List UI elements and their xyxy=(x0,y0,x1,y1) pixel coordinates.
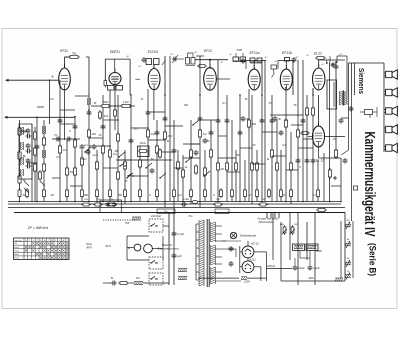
label Tonw xyxy=(85,242,92,250)
resistor Rbus4 xyxy=(213,199,223,206)
svg-text:1M: 1M xyxy=(114,150,117,153)
svg-text:25k: 25k xyxy=(167,134,173,138)
value label t6 xyxy=(245,98,248,101)
labels pots xyxy=(346,220,351,273)
value label t3 xyxy=(140,98,144,101)
svg-text:Kurz2: Kurz2 xyxy=(15,247,20,249)
wire link L2 xyxy=(60,123,75,125)
wire 169 down xyxy=(168,213,170,286)
resistor R62 xyxy=(290,225,295,235)
wire vertical V31 xyxy=(210,120,212,202)
wire link L11 xyxy=(131,175,148,177)
value label top t11 xyxy=(322,63,326,66)
svg-text:+8µF: +8µF xyxy=(313,266,320,270)
capacitor C2 at V5 xyxy=(241,58,246,64)
wire EL12s join xyxy=(308,89,345,159)
svg-text:45Ω: 45Ω xyxy=(280,223,284,226)
wire vertical V16 xyxy=(117,95,119,202)
wire link L20 xyxy=(240,147,252,149)
switch S11 xyxy=(159,173,166,179)
IF transformer T2 xyxy=(142,57,166,65)
wire tube V1 anode loop xyxy=(65,57,90,95)
capacitor C21 xyxy=(225,118,230,124)
tube V1 EF11 xyxy=(59,49,71,90)
value label t26 xyxy=(50,194,53,197)
wire vertical V37 xyxy=(244,160,246,202)
chassis bus wire 2 xyxy=(8,203,341,205)
wire link L23 xyxy=(272,155,286,157)
wire vertical V26 xyxy=(177,150,179,202)
value label t10 xyxy=(69,130,71,133)
resistor R81 xyxy=(120,104,132,107)
capacitor C33 xyxy=(172,253,183,259)
wire vertical V14 xyxy=(109,90,111,202)
svg-text:Motor für: Motor für xyxy=(162,243,173,247)
resistor R34 xyxy=(216,161,219,172)
svg-text:100n: 100n xyxy=(308,277,314,280)
svg-text:EF12a: EF12a xyxy=(250,51,260,55)
svg-text:240mA: 240mA xyxy=(266,265,275,268)
resistor R36 xyxy=(234,161,237,172)
label socket xyxy=(257,218,279,224)
wire link L35 xyxy=(341,117,349,119)
wire vertical V36 xyxy=(239,95,241,202)
resistor Rb16 xyxy=(244,188,247,199)
bottom left capacitor C34 xyxy=(111,277,117,285)
resistor R11 xyxy=(42,162,45,173)
junction D19 xyxy=(164,94,166,96)
resistor Rb19 xyxy=(280,188,283,199)
capacitor C9 xyxy=(58,118,63,124)
value label t30 xyxy=(178,194,182,197)
svg-text:7kΩ: 7kΩ xyxy=(188,215,192,218)
resistor R47 xyxy=(328,168,331,179)
wire vertical V41 xyxy=(261,95,263,202)
subtitle (Serie B) (vertical) xyxy=(368,243,378,276)
resistor R80 xyxy=(100,105,111,108)
resistor under bus right xyxy=(316,209,327,212)
capacitor C53 xyxy=(349,106,354,112)
junction D14 xyxy=(285,119,287,121)
resistor Rb4 xyxy=(66,188,69,199)
bottom left coil L11 xyxy=(134,277,143,285)
choke on anode feed xyxy=(88,98,91,105)
wire link L27 xyxy=(70,185,82,187)
resistor R1 anode V1 xyxy=(65,52,81,59)
resistor Rb8 xyxy=(124,188,127,199)
wire vertical V40 xyxy=(256,150,258,202)
svg-text:EF12: EF12 xyxy=(204,49,212,53)
svg-text:1,2kΩ: 1,2kΩ xyxy=(123,101,129,104)
tube V2 EBF11 xyxy=(109,50,121,85)
svg-text:300: 300 xyxy=(84,194,89,197)
junction J6 xyxy=(102,201,104,203)
junction J17 xyxy=(302,201,304,203)
junction D10 xyxy=(199,117,201,119)
svg-text:EF11: EF11 xyxy=(60,49,68,53)
resistor R2 at V7 top xyxy=(300,56,330,134)
title Kammermusikgerät IV (vertical) xyxy=(361,132,378,237)
resistor Rb9 xyxy=(139,188,142,199)
capacitor C13 xyxy=(129,138,134,144)
mains transformer secondary winding a xyxy=(211,222,216,242)
value label t14 xyxy=(134,128,138,131)
wire AZ12 anodes xyxy=(240,246,267,281)
svg-text:30k: 30k xyxy=(252,122,257,126)
junction J7 xyxy=(117,201,119,203)
junction D11 xyxy=(217,119,219,121)
svg-text:(Motorantrieb): (Motorantrieb) xyxy=(258,221,273,224)
resistor R8 xyxy=(33,162,36,173)
wire top long 1 xyxy=(0,0,1,1)
resistor R20 0,3 xyxy=(108,148,117,159)
socket pins xyxy=(267,213,279,218)
resistor Rb7 xyxy=(109,188,112,199)
switch S2 xyxy=(127,173,135,176)
resistor R43 xyxy=(289,161,292,172)
svg-text:7N5: 7N5 xyxy=(125,222,130,225)
capacitor C31 with label xyxy=(273,116,282,122)
junction D8 xyxy=(164,117,166,119)
wire pot column xyxy=(341,221,353,278)
wire link L21 xyxy=(252,163,265,165)
wire vertical V6 xyxy=(59,80,61,202)
svg-text:ZF = 468 kHz: ZF = 468 kHz xyxy=(27,226,49,230)
svg-text:EBF11: EBF11 xyxy=(110,50,120,54)
resistor Rb17 xyxy=(256,188,259,199)
capacitor C12 xyxy=(101,124,106,130)
junction J4 xyxy=(74,201,76,203)
value label t13 xyxy=(114,150,117,153)
resistor R14 xyxy=(73,138,76,149)
wire vertical V9 xyxy=(74,117,76,201)
resistor R46 xyxy=(311,106,314,117)
svg-text:5000: 5000 xyxy=(82,159,88,161)
wire vertical V42 xyxy=(264,60,266,202)
wire link L26 xyxy=(52,177,60,179)
wire link L7 xyxy=(148,139,165,141)
wire vertical V59 xyxy=(351,63,353,95)
resistor R32 xyxy=(203,166,206,177)
trimmer C1 xyxy=(172,55,184,63)
potentiometer P4 xyxy=(345,273,351,280)
junction D9 xyxy=(173,151,175,153)
capacitor C28 xyxy=(305,158,310,164)
capacitor C25 xyxy=(279,130,284,136)
svg-text:STÄB: STÄB xyxy=(183,198,189,201)
resistor R21 xyxy=(116,132,119,143)
switch S12 xyxy=(185,157,192,163)
mains transformer secondary winding c xyxy=(211,267,216,284)
potentiometer P2 xyxy=(345,241,351,248)
label 7N5 xyxy=(125,222,130,225)
capacitor C23 xyxy=(260,118,265,124)
value label top t2 xyxy=(139,65,143,68)
resistor Rb6 xyxy=(96,188,99,199)
wire oscillator section xyxy=(188,53,205,56)
component at 335,178 xyxy=(333,176,337,180)
resistor R37 30k xyxy=(247,118,256,129)
svg-text:AZ12: AZ12 xyxy=(248,258,256,262)
wire link L5 xyxy=(89,145,110,147)
value label top t9 xyxy=(296,56,300,59)
capacitor C3 at V6 xyxy=(292,57,297,63)
label S3 xyxy=(150,215,162,218)
svg-text:ÄFN: ÄFN xyxy=(85,246,91,250)
capacitor C31 xyxy=(343,158,348,164)
resistor Rb18 xyxy=(268,188,271,199)
junction D24 xyxy=(312,94,314,96)
junction D2 xyxy=(88,109,90,111)
coil L6 xyxy=(43,126,46,134)
label ZF frequency xyxy=(27,226,49,230)
trimmer arrows xyxy=(24,181,45,193)
wire vertical V46 xyxy=(285,88,287,202)
wire link L13 xyxy=(165,125,183,127)
wire vertical V21 xyxy=(153,89,155,120)
small box right edge xyxy=(354,186,358,190)
wire vertical V10 xyxy=(81,150,83,202)
switch S8 xyxy=(126,173,133,179)
junction D20 xyxy=(199,94,201,96)
svg-text:AZ 12: AZ 12 xyxy=(250,242,259,246)
wire link L33 xyxy=(303,138,313,140)
junction D5 xyxy=(117,119,119,121)
small box under bus 2 xyxy=(215,209,229,214)
choke L14 xyxy=(335,278,343,281)
svg-text:ECH11: ECH11 xyxy=(148,50,159,54)
value label top t8 xyxy=(275,60,279,63)
wire V6 anode loop xyxy=(278,61,295,96)
wire vertical V27 xyxy=(182,155,184,202)
junction D16 xyxy=(36,145,38,147)
value label t19 xyxy=(220,168,223,171)
wire link L10 xyxy=(103,167,118,169)
svg-text:2x0,01µF: 2x0,01µF xyxy=(150,215,162,218)
capacitor C4 V7 xyxy=(334,64,339,70)
node antenna xyxy=(49,79,51,124)
resistor R19 xyxy=(101,144,104,155)
svg-text:0,1µF: 0,1µF xyxy=(177,232,184,236)
mains transformer primary winding xyxy=(199,220,204,286)
value label t29 xyxy=(149,194,151,197)
rectifier tube V10 AZ12 lower xyxy=(242,258,254,272)
resistor Rb21 xyxy=(317,188,320,199)
svg-text:1M: 1M xyxy=(50,194,53,197)
wire vertical V24 xyxy=(169,56,171,202)
resistor R41 xyxy=(275,161,278,172)
capacitor C10 xyxy=(73,124,78,130)
resistor R27 25k xyxy=(163,130,172,141)
resistor R40 xyxy=(270,148,273,159)
wire link extra1 xyxy=(140,159,148,161)
coupling network V6 xyxy=(271,58,290,78)
wire speaker bus xyxy=(383,63,385,152)
wire link L24 xyxy=(286,169,298,171)
mains transformer core xyxy=(207,219,209,287)
wire link L28 xyxy=(75,95,89,97)
junction J16 xyxy=(285,201,287,203)
wire vertical V11 xyxy=(88,95,90,202)
resistor R44 xyxy=(296,128,299,139)
wire vertical V57 xyxy=(346,63,348,91)
wire V4 anode loop xyxy=(195,59,230,95)
value label t9 xyxy=(56,156,60,159)
wire vertical V30 xyxy=(204,150,206,202)
wire V3 anode area xyxy=(154,56,165,95)
resistor R4 5k xyxy=(18,150,26,161)
resistor R38 xyxy=(250,161,253,172)
label cluster xyxy=(82,155,99,161)
capacitor C19 xyxy=(209,130,214,136)
value label t5 xyxy=(222,102,226,105)
junction D1 xyxy=(74,116,76,118)
transformer right taps xyxy=(215,226,241,281)
resistor R26 xyxy=(155,144,158,155)
wire vertical V54 xyxy=(328,62,330,202)
value label t20 xyxy=(237,154,240,157)
resistor R23 xyxy=(123,160,126,171)
switch S9 xyxy=(192,120,199,126)
resistor R48 xyxy=(334,148,337,159)
capacitor C30 with label xyxy=(241,116,250,122)
value label t4 xyxy=(184,104,189,107)
svg-text:Tonw.: Tonw. xyxy=(86,242,93,246)
wire link L3 xyxy=(89,137,103,139)
svg-text:380V: 380V xyxy=(316,250,322,253)
label T3 xyxy=(236,48,242,52)
svg-text:+8µF: +8µF xyxy=(298,266,305,270)
wire y160 long xyxy=(116,159,172,161)
wire link L22 xyxy=(262,131,277,133)
svg-text:300: 300 xyxy=(118,194,123,197)
junction J10 xyxy=(164,201,166,203)
switch S10 xyxy=(145,163,152,169)
wire vertical V22 xyxy=(156,120,158,202)
capacitor C8 xyxy=(35,144,40,150)
capacitor C17 xyxy=(172,148,177,154)
wire y115 right xyxy=(270,114,303,116)
potentiometer P1 xyxy=(345,222,351,229)
wire vertical V12 xyxy=(96,150,98,204)
value label t16 xyxy=(166,140,170,143)
svg-text:EL12: EL12 xyxy=(314,52,322,56)
value label t1 xyxy=(50,98,54,101)
value label t22 xyxy=(266,158,270,161)
resistor Rb10 xyxy=(156,188,159,199)
wire bottom left xyxy=(103,282,169,284)
wire vertical V32 xyxy=(217,95,219,202)
junction D3 xyxy=(102,125,104,127)
value label t32 xyxy=(249,194,251,197)
resistor Rbus5 xyxy=(258,199,268,206)
wire link L18 xyxy=(218,157,236,159)
junction J2 xyxy=(36,201,38,203)
antenna input wire xyxy=(6,77,59,82)
wire V2 anode loop xyxy=(104,59,130,95)
choke L10 xyxy=(178,277,187,280)
label AZ12 upper xyxy=(250,242,259,246)
label switch xyxy=(125,179,128,183)
resistor R29 xyxy=(181,168,184,179)
capacitor C51 xyxy=(66,137,72,142)
value label top t6 xyxy=(230,53,234,56)
resistor R42 xyxy=(284,118,287,129)
svg-text:L: L xyxy=(55,240,56,242)
node top V7 xyxy=(335,61,337,63)
resistor R28 xyxy=(176,160,179,171)
wire link L17 xyxy=(218,135,227,137)
junction D22 xyxy=(261,94,263,96)
value label t24 xyxy=(299,166,301,169)
resistor R22 xyxy=(116,170,119,181)
svg-text:10000: 10000 xyxy=(92,155,99,157)
wire vertical V19 xyxy=(139,146,141,202)
wire vertical V4 xyxy=(36,117,38,201)
resistor Rb3 xyxy=(43,188,46,199)
capacitor C41 xyxy=(194,150,199,156)
IF transformer T3 with trimmers xyxy=(233,53,246,62)
capacitor C20 xyxy=(216,118,221,124)
svg-text:(Serie B): (Serie B) xyxy=(368,243,378,276)
resistor R33 xyxy=(209,148,212,159)
dial lamp xyxy=(230,232,236,238)
wire output to speakers line xyxy=(349,62,385,64)
wire vertical V35 xyxy=(235,150,237,202)
value label t34 xyxy=(312,194,316,197)
junction J15 xyxy=(261,201,263,203)
tube V5 EF12a xyxy=(248,51,260,90)
wire vertical V52 xyxy=(317,160,319,202)
wire vertical V18 xyxy=(130,95,132,202)
wire link extra3 xyxy=(191,143,200,145)
resistor R7 xyxy=(33,146,36,157)
coil L3 xyxy=(21,142,24,150)
wire vertical V2 xyxy=(31,124,33,202)
junction J14 xyxy=(239,201,241,203)
value label top t4 xyxy=(195,51,199,54)
resistor R31 0,1 xyxy=(198,128,207,139)
junction J13 xyxy=(217,201,219,203)
svg-text:1M: 1M xyxy=(220,168,223,171)
wire vertical V58 xyxy=(348,63,350,95)
wire V5 anode loop xyxy=(246,61,266,96)
resistor R24 xyxy=(138,158,141,169)
resistor Rb2 xyxy=(26,188,29,199)
IF transformer T1 xyxy=(108,79,141,90)
value label top t10 xyxy=(307,54,311,57)
wire vertical V38 xyxy=(248,89,250,202)
wire 174 down xyxy=(173,213,175,286)
switch box S4 xyxy=(149,257,163,269)
capacitor C42 xyxy=(203,138,208,144)
wire top long 2 xyxy=(337,56,347,63)
capacitor C40 xyxy=(150,168,155,174)
wire vertical V28 xyxy=(190,120,192,204)
switch S7 xyxy=(118,152,125,158)
resistor R15 xyxy=(73,166,76,177)
junction D15 xyxy=(302,119,304,121)
rectifier tube V9 AZ12 upper xyxy=(242,241,254,258)
resistor Rb1 xyxy=(18,188,21,199)
resistor R82 xyxy=(99,108,117,120)
loudspeaker LS3 xyxy=(384,106,397,115)
potentiometer P3 xyxy=(345,260,351,267)
wire vertical V1 xyxy=(19,120,21,202)
component box near title xyxy=(360,107,377,118)
trimmer T5 xyxy=(26,134,32,169)
wire link L8 xyxy=(157,151,174,153)
